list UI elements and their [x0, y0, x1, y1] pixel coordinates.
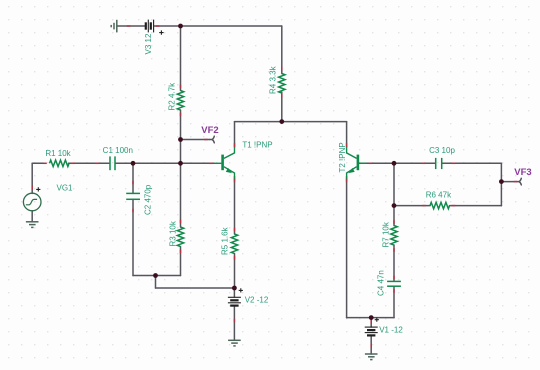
wire: [370, 336, 372, 354]
svg-text:VG1: VG1: [56, 184, 73, 193]
pin mark: [452, 205, 456, 207]
pin mark: [71, 162, 75, 164]
wire: [346, 177, 348, 318]
pin mark: [43, 162, 47, 164]
capacitor C3: [436, 158, 442, 169]
wire: [501, 181, 516, 183]
node VF2 tap: [178, 137, 183, 142]
wire: [156, 287, 235, 289]
pin mark: [234, 228, 236, 232]
pin mark: [370, 344, 372, 348]
battery V2: [228, 288, 243, 305]
wire: [347, 317, 394, 319]
wire: [234, 177, 236, 235]
node V1 plus: [369, 315, 374, 320]
pin mark: [180, 250, 182, 254]
node collector bus: [279, 119, 284, 124]
ground: [228, 340, 241, 346]
svg-text:V3 12: V3 12: [144, 33, 153, 54]
battery V3: [146, 20, 164, 35]
svg-text:R7 10k: R7 10k: [381, 221, 390, 247]
svg-text:C1 100n: C1 100n: [103, 146, 133, 155]
wire: [393, 163, 395, 225]
transistor T2: [347, 147, 367, 180]
wire: [133, 275, 181, 277]
pin mark: [393, 220, 395, 224]
svg-text:R4 3.3k: R4 3.3k: [269, 65, 278, 94]
wire: [393, 286, 395, 317]
pin mark: [452, 162, 456, 164]
wire: [155, 25, 181, 27]
node T1 base: [178, 161, 183, 166]
wire: [450, 205, 502, 207]
svg-text:VF3: VF3: [514, 167, 531, 178]
wire: [233, 288, 235, 297]
pin mark: [346, 179, 348, 183]
resistor R6: [430, 202, 450, 208]
node VF3 tap: [499, 179, 504, 184]
wire: [31, 163, 33, 193]
wire: [346, 122, 348, 147]
pin mark: [233, 319, 235, 323]
voltage pin VF2: [210, 136, 215, 143]
wire: [233, 306, 235, 340]
pin mark: [393, 248, 395, 252]
wire: [281, 92, 283, 122]
svg-text:R1 10k: R1 10k: [45, 149, 71, 158]
pin mark: [234, 143, 236, 147]
wire: [181, 139, 210, 141]
ground: [26, 222, 39, 228]
pin mark: [369, 162, 373, 164]
node C1-C2: [131, 161, 136, 166]
wire: [181, 162, 215, 164]
pin mark: [422, 162, 426, 164]
pin mark: [180, 220, 182, 224]
wire: [234, 254, 236, 289]
node R6 left: [392, 203, 397, 208]
wire: [69, 162, 110, 164]
resistor R2: [177, 91, 183, 111]
resistor R5: [231, 234, 237, 254]
wire: [180, 110, 182, 163]
pin mark: [132, 209, 134, 213]
node bottom left: [153, 273, 158, 278]
svg-text:V2 -12: V2 -12: [245, 296, 269, 305]
wire: [234, 122, 236, 147]
svg-text:T2 !PNP: T2 !PNP: [338, 142, 347, 172]
pin mark: [393, 276, 395, 280]
svg-text:R5 1.6k: R5 1.6k: [220, 226, 229, 255]
ground: [365, 354, 378, 360]
wire: [281, 26, 283, 74]
wire: [117, 25, 145, 27]
pin mark: [132, 181, 134, 185]
resistor R1: [50, 160, 70, 166]
svg-text:C3 10p: C3 10p: [429, 146, 455, 155]
wire: [442, 162, 501, 164]
pin mark: [346, 143, 348, 147]
resistor R3: [177, 227, 183, 247]
pin mark: [180, 113, 182, 117]
wire: [181, 25, 282, 27]
pin mark: [209, 162, 213, 164]
wire: [394, 205, 430, 207]
wire: [500, 163, 502, 205]
node T2 base: [392, 161, 397, 166]
pin mark: [204, 139, 208, 141]
resistor R4: [279, 74, 285, 94]
wire: [132, 163, 134, 193]
svg-text:C2 470p: C2 470p: [144, 184, 153, 215]
svg-text:V1 -12: V1 -12: [379, 325, 403, 334]
wire: [180, 247, 182, 276]
svg-text:R3 10k: R3 10k: [169, 220, 178, 246]
svg-text:R2 4.7k: R2 4.7k: [168, 82, 177, 111]
capacitor C1: [110, 156, 115, 170]
pin mark: [422, 205, 426, 207]
wire: [394, 162, 435, 164]
generator VG1: [23, 187, 41, 211]
wire: [31, 211, 33, 222]
pin mark: [370, 320, 372, 324]
pin mark: [234, 256, 236, 260]
resistor R7: [391, 226, 397, 246]
svg-text:C4 47n: C4 47n: [376, 270, 385, 296]
svg-text:VF2: VF2: [201, 125, 218, 136]
capacitor C4: [387, 281, 401, 286]
node V2 plus: [232, 286, 237, 291]
wire: [116, 162, 181, 164]
wire: [370, 318, 372, 327]
node top rail: [178, 24, 183, 29]
voltage pin VF3: [517, 178, 522, 185]
pin mark: [234, 179, 236, 183]
pin mark: [180, 85, 182, 89]
pin mark: [281, 94, 283, 98]
battery V1: [365, 318, 379, 336]
wire: [155, 276, 157, 289]
svg-text:T1 !PNP: T1 !PNP: [242, 141, 272, 150]
pin mark: [127, 25, 131, 27]
svg-text:R6 47k: R6 47k: [426, 191, 452, 200]
pin mark: [95, 162, 99, 164]
wire: [393, 245, 395, 281]
pin mark: [156, 25, 160, 27]
wire: [180, 163, 182, 227]
wire: [235, 121, 347, 123]
wire: [132, 199, 134, 275]
wire: [32, 162, 43, 164]
pin mark: [514, 181, 518, 183]
wire: [359, 162, 394, 164]
wire: [180, 26, 182, 91]
ground: [111, 20, 117, 33]
transistor T1: [214, 147, 235, 180]
pin mark: [31, 186, 33, 190]
pin mark: [281, 67, 283, 71]
pin mark: [393, 289, 395, 293]
capacitor C2: [126, 193, 140, 199]
